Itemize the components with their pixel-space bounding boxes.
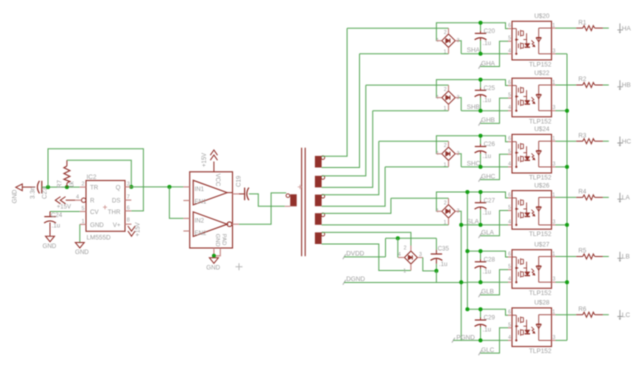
bridge BLA pin1 feed <box>448 218 450 225</box>
transformer T1 primary winding <box>286 194 290 198</box>
svg-text:1: 1 <box>552 136 555 142</box>
bridge D7 pin4 stub and riser <box>398 257 404 259</box>
junction C29 bottom <box>479 338 483 342</box>
junction common cathode row LA <box>565 223 569 227</box>
svg-text:2: 2 <box>404 246 407 252</box>
optocoupler U$28 internals <box>512 315 552 342</box>
optocoupler U$28 body <box>512 308 552 347</box>
transformer T1 secondary winding 4 <box>315 213 322 225</box>
net label DVDD <box>343 254 346 259</box>
svg-text:C28: C28 <box>484 257 496 264</box>
svg-text:TLP152: TLP152 <box>529 62 552 69</box>
svg-text:3: 3 <box>553 219 556 225</box>
net flag LA <box>617 193 622 201</box>
IC2 LM555D body <box>86 181 125 232</box>
svg-text:GND: GND <box>90 222 104 229</box>
svg-text:HA: HA <box>622 25 632 32</box>
junction C27 top <box>479 190 483 194</box>
svg-text:5: 5 <box>508 36 511 42</box>
optocoupler U$22 internals <box>512 85 552 112</box>
optocoupler U$24 pin 6 <box>508 141 512 143</box>
svg-text:6: 6 <box>508 80 511 86</box>
svg-text:HB: HB <box>622 82 631 89</box>
optocoupler U$27 pin 5 <box>508 269 512 271</box>
svg-text:3: 3 <box>553 48 556 54</box>
svg-text:THR: THR <box>108 209 121 216</box>
svg-text:1: 1 <box>552 252 555 258</box>
wire R1 to label <box>603 27 609 29</box>
net flag HC <box>617 137 622 145</box>
bridge rectifier BHB <box>442 91 455 104</box>
net label DGND wire <box>343 280 346 285</box>
ground GND below driver <box>209 258 218 264</box>
capacitor C26 <box>480 136 482 144</box>
svg-text:4: 4 <box>508 105 511 111</box>
optocoupler U$27 body <box>512 250 552 289</box>
svg-text:R7: R7 <box>57 180 64 188</box>
wire secondary2 bottom to channel B riser <box>322 111 373 188</box>
driver pin EN1 <box>183 200 189 202</box>
svg-text:2: 2 <box>82 182 85 188</box>
optocoupler U$28 pin 6 <box>508 314 512 316</box>
svg-text:4: 4 <box>508 277 511 283</box>
junction C26 top <box>479 134 483 138</box>
optocoupler U$28 pin 1 <box>552 314 556 316</box>
origin cross mark <box>236 263 243 270</box>
net flag HA <box>617 23 622 31</box>
svg-text:DGND: DGND <box>346 276 365 283</box>
wire secondary1 bottom to channel A riser <box>322 54 360 168</box>
bridge rectifier BLA <box>442 205 455 218</box>
wire common cathode vertical <box>566 54 568 341</box>
svg-text:EN1: EN1 <box>195 199 207 206</box>
driver pin EN2 <box>183 230 189 232</box>
svg-text:GLB: GLB <box>481 289 494 296</box>
svg-text:V+: V+ <box>113 222 121 229</box>
net label GLB stub <box>480 270 508 295</box>
wire R7 top to Q node <box>67 160 131 187</box>
svg-text:.1u: .1u <box>439 261 448 268</box>
capacitor C20 <box>480 23 482 31</box>
bridge D7 pin1 stub <box>410 264 412 271</box>
transformer T1 secondary winding 3 <box>315 195 322 207</box>
optocoupler U$22 body <box>512 78 552 117</box>
wire secondary5 bottom to bridge D7 pin1 <box>322 244 411 271</box>
wire bottom rail channel LC <box>452 338 455 343</box>
optocoupler U$22 pin 1 <box>552 84 556 86</box>
bridge BHB pin1 feed <box>373 110 449 112</box>
svg-text:5: 5 <box>82 206 85 212</box>
buffer gate 1 <box>193 180 227 205</box>
svg-text:R3: R3 <box>578 132 586 139</box>
optocoupler U$26 pin 6 <box>508 197 512 199</box>
wire N1 riser to THR <box>48 149 143 211</box>
IC2 pin 1 GND <box>80 223 86 225</box>
optocoupler U$26 pin 1 <box>552 196 556 198</box>
optocoupler U$22 pin 3 <box>552 110 556 112</box>
transformer T1 secondary winding 2 <box>315 176 322 188</box>
svg-text:6: 6 <box>127 205 130 211</box>
optocoupler U$22 pin 5 <box>508 97 512 99</box>
net label GLC stub <box>480 328 508 353</box>
optocoupler U$27 pin 6 <box>508 256 512 258</box>
svg-text:GND: GND <box>206 264 220 271</box>
svg-text:GHA: GHA <box>481 60 496 67</box>
svg-text:4: 4 <box>76 194 79 200</box>
optocoupler U$27 pin 4 <box>508 281 512 283</box>
svg-text:1: 1 <box>403 268 406 274</box>
junction C28 bottom <box>479 280 483 284</box>
svg-text:.1u: .1u <box>483 209 492 216</box>
optocoupler U$26 body <box>512 191 552 230</box>
resistor R7 <box>66 183 68 187</box>
wire DGND node to DGND rail <box>435 271 437 283</box>
svg-text:TLP152: TLP152 <box>529 348 552 355</box>
optocoupler U$27 internals <box>512 257 552 284</box>
wire DVDD riser <box>385 238 387 257</box>
svg-text:SLA: SLA <box>467 218 480 225</box>
svg-text:6: 6 <box>508 23 511 29</box>
wire DVDD rail <box>386 237 437 239</box>
wire secondary1 top to channel A riser <box>322 28 348 156</box>
wire R3 to label <box>603 140 609 142</box>
wire R5 to label <box>603 256 609 258</box>
IC2 pin 6 THR <box>125 210 131 212</box>
svg-text:7: 7 <box>127 195 130 201</box>
IC2 pin 2 TR <box>80 186 86 188</box>
svg-text:C26: C26 <box>484 141 496 148</box>
wire C23 left lead <box>22 186 35 188</box>
junction N1-b <box>65 185 69 189</box>
svg-text:3: 3 <box>553 277 556 283</box>
svg-text:4: 4 <box>508 48 511 54</box>
junction common cathode row HC <box>565 165 569 169</box>
junction C28 top <box>479 249 483 253</box>
svg-text:DS: DS <box>112 198 121 205</box>
svg-text:HC: HC <box>622 138 632 145</box>
junction common cathode row HB <box>565 109 569 113</box>
svg-text:1: 1 <box>444 106 447 112</box>
bridge D7 pin2 stub <box>410 246 412 252</box>
svg-text:4: 4 <box>508 161 511 167</box>
optocoupler U$26 pin 5 <box>508 210 512 212</box>
IC2 pin 5 CV <box>80 211 86 213</box>
optocoupler U$27 pin 3 <box>552 281 556 283</box>
junction C20 top <box>479 21 483 25</box>
resistor R3 <box>576 140 583 142</box>
wire bottom rail channel HB <box>461 110 508 112</box>
svg-text:GHC: GHC <box>481 173 496 180</box>
junction N1-a <box>46 185 50 189</box>
wire C19 to primary bottom <box>249 194 285 206</box>
capacitor C29 <box>480 309 482 317</box>
optocoupler U$28 pin 4 <box>508 339 512 341</box>
svg-text:DVDD: DVDD <box>346 250 364 257</box>
bridge BHA pin3 to bottom rail <box>455 40 459 42</box>
transformer T1 secondary winding 5 <box>315 232 322 244</box>
ground GND at IC2 pin1 <box>75 243 84 249</box>
svg-text:8: 8 <box>127 218 130 224</box>
wire Q to buffer inputs <box>131 186 183 188</box>
capacitor C35 <box>435 238 437 250</box>
svg-text:5: 5 <box>508 93 511 99</box>
wire GND tie rows 4-6 <box>460 225 462 341</box>
optocoupler U$20 pin 3 <box>552 53 556 55</box>
svg-text:5: 5 <box>508 264 511 270</box>
svg-text:+15V: +15V <box>57 205 71 211</box>
svg-text:1: 1 <box>444 49 447 55</box>
driver PAD pin stub <box>214 248 220 256</box>
bridge BHA pin2 feed <box>347 27 448 29</box>
svg-text:1: 1 <box>82 219 85 225</box>
svg-text:2: 2 <box>444 87 447 93</box>
transformer T1 secondary winding 1 <box>315 156 322 168</box>
junction C26 bottom <box>479 165 483 169</box>
svg-text:C20: C20 <box>484 28 496 35</box>
bridge BHC pin2 feed <box>379 140 449 142</box>
optocoupler U$28 pin 3 <box>552 339 556 341</box>
IC2 pin 3 Q <box>125 186 131 188</box>
svg-text:1: 1 <box>444 162 447 168</box>
wire V+ rail channel LB <box>467 251 508 257</box>
svg-text:3.3n: 3.3n <box>29 186 36 199</box>
driver pin IN2 <box>183 217 189 219</box>
optocoupler U$26 pin 4 <box>508 224 512 226</box>
optocoupler U$20 pin 1 <box>552 27 556 29</box>
svg-text:1: 1 <box>552 23 555 29</box>
svg-text:R5: R5 <box>578 248 586 255</box>
net label GHB stub <box>480 98 508 123</box>
wire pin3 to common <box>556 281 568 283</box>
junction VDD tie row LC <box>465 307 469 311</box>
svg-text:5: 5 <box>508 322 511 328</box>
capacitor C28 <box>480 251 482 259</box>
svg-text:.1u: .1u <box>483 268 492 275</box>
svg-text:1: 1 <box>444 220 447 226</box>
wire D7 pin3 to DGND node <box>423 258 437 271</box>
svg-text:C35: C35 <box>438 246 450 253</box>
svg-text:.1u: .1u <box>483 40 492 47</box>
junction DVDD rail - D7 pin4 <box>396 236 400 240</box>
bridge BHA pin1 feed <box>360 53 449 55</box>
bridge rectifier D7 <box>404 251 417 264</box>
svg-text:LA: LA <box>622 195 631 202</box>
bridge D7 pin3 stub <box>417 257 422 259</box>
bridge BLA pin4 stub <box>436 210 441 212</box>
junction Q-IN2 branch <box>167 185 171 189</box>
optocoupler U$24 body <box>512 134 552 173</box>
svg-text:CV: CV <box>90 209 99 216</box>
capacitor C25 <box>480 80 482 88</box>
wire pin3 to common <box>556 166 568 168</box>
svg-text:2: 2 <box>444 201 447 207</box>
svg-text:U$22: U$22 <box>534 70 550 77</box>
junction DGND node <box>434 269 438 273</box>
svg-text:SHC: SHC <box>467 160 481 167</box>
junction C20 bottom <box>479 52 483 56</box>
svg-text:1k: 1k <box>69 181 76 188</box>
optocoupler U$24 pin 4 <box>508 166 512 168</box>
wire pin3 to common <box>556 53 568 55</box>
optocoupler U$20 body <box>512 21 552 60</box>
net label GLA stub <box>480 211 508 236</box>
capacitor C27 <box>480 192 482 200</box>
bridge rectifier BHA <box>442 34 455 47</box>
wire bottom rail channel HC <box>461 166 508 168</box>
wire secondary3 top to channel C riser <box>322 141 379 195</box>
wire secondary5 top to bridge D7 pin2 <box>322 232 411 245</box>
svg-text:.1u: .1u <box>483 327 492 334</box>
optocoupler U$26 pin 3 <box>552 224 556 226</box>
buffer gate 2 inverting <box>193 212 227 237</box>
svg-text:R6: R6 <box>578 306 586 313</box>
junction R7-Q <box>129 185 133 189</box>
svg-text:GLA: GLA <box>481 230 495 237</box>
bridge BLA pin2 feed <box>391 197 449 199</box>
svg-text:PGND: PGND <box>456 335 475 342</box>
resistor R2 <box>576 84 583 86</box>
svg-text:5: 5 <box>508 149 511 155</box>
svg-text:GHB: GHB <box>481 117 495 124</box>
wire pin3 to common <box>556 110 568 112</box>
supply +15V at reset pin <box>55 197 60 204</box>
wire pin1 to R5 <box>556 256 577 258</box>
bridge BHA pin4 stub <box>436 40 441 42</box>
svg-text:U$28: U$28 <box>534 300 550 307</box>
optocoupler U$22 pin 4 <box>508 110 512 112</box>
wire pin3 to common <box>556 224 568 226</box>
wire to IN2 <box>169 187 183 219</box>
optocoupler U$27 pin 1 <box>552 256 556 258</box>
wire pin3 to common <box>556 339 568 341</box>
wire secondary4 top to channel LA riser <box>322 198 391 213</box>
svg-text:U$24: U$24 <box>534 126 550 133</box>
svg-text:GLC: GLC <box>481 347 495 354</box>
svg-text:SHB: SHB <box>467 104 480 111</box>
junction C25 bottom <box>479 109 483 113</box>
svg-text:IN2: IN2 <box>195 218 205 225</box>
junction C29 top <box>479 307 483 311</box>
svg-text:TLP152: TLP152 <box>529 231 552 238</box>
svg-text:3: 3 <box>553 335 556 341</box>
wire pin1 to R3 <box>556 140 577 142</box>
supply +15V at V+ pin <box>128 226 135 231</box>
junction common cathode row LB <box>565 280 569 284</box>
bridge BHB pin2 feed <box>366 84 449 86</box>
svg-text:PAD: PAD <box>221 234 227 246</box>
wire pin1 to R2 <box>556 84 577 86</box>
svg-text:VCC: VCC <box>214 174 220 187</box>
net label GHA stub <box>480 41 508 66</box>
supply +15V at VCC <box>213 162 215 172</box>
capacitor C19 <box>244 188 246 201</box>
capacitor C23 <box>37 181 39 194</box>
svg-text:GND: GND <box>43 243 57 250</box>
net flag LC <box>617 310 622 318</box>
wire secondary4 bottom to channel LA pin1 <box>322 224 449 226</box>
wire node N1 to TR <box>42 186 80 188</box>
svg-text:IC2: IC2 <box>87 174 97 181</box>
svg-text:C27: C27 <box>484 197 496 204</box>
svg-text:6: 6 <box>508 192 511 198</box>
optocoupler U$20 pin 5 <box>508 40 512 42</box>
optocoupler U$22 pin 6 <box>508 85 512 87</box>
svg-text:IN1: IN1 <box>195 186 205 193</box>
optocoupler U$20 internals <box>512 28 552 55</box>
junction VDD tie row LA <box>465 190 469 194</box>
optocoupler U$26 internals <box>512 197 552 226</box>
wire bottom rail channel HA <box>461 53 508 55</box>
svg-text:6: 6 <box>508 310 511 316</box>
optocoupler U$28 pin 5 <box>508 327 512 329</box>
svg-text:U$27: U$27 <box>534 242 550 249</box>
optocoupler U$24 pin 5 <box>508 153 512 155</box>
svg-text:LC: LC <box>622 312 631 319</box>
svg-text:C19: C19 <box>236 175 243 187</box>
IC2 pin 4 R with bubble <box>82 198 86 202</box>
svg-text:C25: C25 <box>484 85 496 92</box>
driver IC U3 body <box>190 172 233 248</box>
svg-text:2: 2 <box>444 143 447 149</box>
svg-text:GND: GND <box>12 189 19 203</box>
driver output 1 pin <box>227 192 232 194</box>
net flag HB <box>617 80 622 88</box>
bridge BHB pin4 stub <box>436 97 441 99</box>
resistor R4 <box>576 196 583 198</box>
optocoupler U$20 pin 4 <box>508 53 512 55</box>
svg-text:4: 4 <box>508 219 511 225</box>
wire pin1 to R1 <box>556 27 577 29</box>
wire secondary2 top to channel B riser <box>322 85 366 176</box>
wire V+ rail channel HC <box>436 136 508 154</box>
junction VDD tie row LB <box>465 249 469 253</box>
svg-text:LM555D: LM555D <box>87 234 112 241</box>
resistor R1 <box>576 27 583 29</box>
bridge BHC pin4 stub <box>436 153 441 155</box>
wire V+ rail channel HA <box>436 23 508 41</box>
wire IC2 GND pin down <box>79 224 81 242</box>
svg-text:1: 1 <box>552 310 555 316</box>
bridge rectifier BHC <box>442 147 455 160</box>
svg-text:TLP152: TLP152 <box>529 290 552 297</box>
wire R4 to label <box>603 196 609 198</box>
svg-text:R1: R1 <box>578 19 586 26</box>
bridge BHB pin3 to bottom rail <box>455 97 459 99</box>
wire VDD tie rows 4-6 <box>466 192 468 309</box>
net flag LB <box>617 252 622 260</box>
optocoupler U$24 pin 3 <box>552 166 556 168</box>
wire R6 to label <box>603 314 609 316</box>
svg-text:.1u: .1u <box>52 222 61 229</box>
svg-text:Q: Q <box>116 185 121 192</box>
junction GND tie row LA <box>459 223 463 227</box>
junction GND tie row LB <box>459 280 463 284</box>
wire pin1 to R6 <box>556 314 577 316</box>
svg-text:2: 2 <box>444 30 447 36</box>
wire V+ rail channel LC <box>467 309 508 315</box>
svg-text:+15V: +15V <box>136 222 142 236</box>
IC2 pin 8 V+ <box>125 223 132 225</box>
svg-text:TLP152: TLP152 <box>529 175 552 182</box>
IC2 pin 7 DS <box>125 199 131 201</box>
wire R2 to label <box>603 84 609 86</box>
svg-text:U$26: U$26 <box>534 182 550 189</box>
wire V+ rail channel HB <box>436 80 508 98</box>
wire CV to C24 <box>50 211 80 213</box>
net label GHC stub <box>480 154 508 179</box>
svg-text:6: 6 <box>508 136 511 142</box>
svg-text:6: 6 <box>508 252 511 258</box>
